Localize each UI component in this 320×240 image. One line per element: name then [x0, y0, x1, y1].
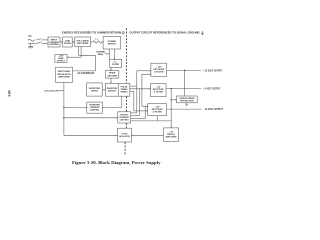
box overvoltage protection	[176, 96, 197, 103]
svg-text:ENERGY RECOVERED TO SUMMER RET: ENERGY RECOVERED TO SUMMER RETURN	[62, 31, 121, 35]
box inverter drive	[87, 83, 103, 96]
svg-text:FILTER: FILTER	[64, 43, 72, 45]
isolation boundary dashed line	[125, 28, 126, 155]
svg-text:SWITCH: SWITCH	[108, 91, 117, 93]
wire inductor to power switch	[101, 41, 104, 43]
AC input wire lower	[28, 42, 37, 44]
wire inverter switch to -12V rectifier	[130, 90, 134, 92]
wire +5V sense to overvoltage protection	[171, 99, 176, 101]
wire full wave rectifier bottom loop	[78, 47, 80, 56]
page number	[8, 90, 12, 97]
top note: energy recovered text	[62, 31, 121, 35]
svg-text:+ 5 VOLT OUTPUT: + 5 VOLT OUTPUT	[203, 88, 221, 91]
AC input wire upper with source squiggle	[28, 39, 35, 41]
svg-text:DRIVE: DRIVE	[91, 91, 98, 93]
svg-text:PROTECTION: PROTECTION	[180, 100, 194, 102]
box inverter current limiting	[87, 102, 103, 113]
node A circled symbol	[122, 32, 124, 34]
wire rectifier to inductor	[91, 41, 93, 43]
label AC feedback	[77, 72, 94, 75]
caption figure title	[72, 161, 161, 165]
svg-text:AC FEEDBACK: AC FEEDBACK	[77, 72, 94, 75]
top note: output circuit referenced text	[130, 31, 200, 35]
svg-text:ISOLATOR: ISOLATOR	[119, 135, 130, 138]
svg-text:AMPLIFIER: AMPLIFIER	[165, 136, 177, 139]
svg-text:& FILTER: & FILTER	[153, 112, 163, 114]
wire inverter switch to +12V rectifier	[130, 85, 137, 87]
svg-text:+12V (ON-OFF): +12V (ON-OFF)	[44, 91, 60, 93]
svg-text:TRANS: TRANS	[120, 88, 128, 91]
svg-text:BIAS: BIAS	[98, 53, 104, 56]
wire rectifier to bias supply	[80, 47, 82, 58]
svg-text:L.C.: L.C.	[114, 62, 118, 64]
svg-text:Figure 3-20. Block Diagram, P: Figure 3-20. Block Diagram, Power Supply	[72, 161, 161, 165]
box +5V error amplifier	[163, 128, 178, 141]
box input current limiting	[48, 37, 60, 47]
box LC filter	[109, 59, 121, 67]
wire bus to inverter current limiting	[64, 106, 87, 108]
svg-text:LIMITING: LIMITING	[90, 110, 99, 112]
svg-text:FILTER: FILTER	[112, 64, 120, 66]
box output current limiting	[118, 112, 131, 123]
box inverter switch and pulse timing	[106, 83, 130, 96]
svg-text:LIMITING: LIMITING	[120, 119, 129, 121]
svg-text:RECTIFIER: RECTIFIER	[77, 43, 89, 45]
wire inverter drive to inverter switch	[102, 89, 105, 91]
signal ground glyph after top note	[201, 31, 204, 35]
wire lower sense bus	[131, 120, 172, 122]
box full wave rectifier	[75, 37, 91, 47]
wire LC filter to spike catcher	[110, 67, 112, 70]
svg-text:CATCHER: CATCHER	[107, 74, 118, 77]
feedback bus vertical	[63, 83, 65, 136]
box switching regulator amplifier	[56, 67, 73, 82]
switch S1 lower	[37, 42, 42, 43]
svg-text:AMPLIFIER: AMPLIFIER	[58, 75, 70, 78]
label normal bias	[96, 51, 106, 56]
svg-text:SUPPLY: SUPPLY	[57, 60, 66, 62]
wire inverter current limiting to inverter switch bottom	[102, 106, 121, 108]
wire bus to opto isolator	[64, 134, 117, 136]
inductor L1	[93, 41, 102, 43]
box power switch	[103, 37, 120, 50]
wire spike catcher to inverter switch	[110, 78, 112, 83]
label on-off	[44, 91, 60, 93]
AC source label	[28, 35, 32, 38]
box bias supply	[55, 54, 67, 62]
svg-text:+ 12 VOLT OUTPUT: + 12 VOLT OUTPUT	[203, 69, 223, 72]
wire to rectifier	[72, 41, 74, 43]
+12V output line	[167, 69, 201, 71]
-12V output line	[167, 108, 202, 110]
wire inverter switch to +5V rectifier	[130, 88, 151, 90]
chassis ground	[30, 43, 32, 46]
svg-text:& FILTER: & FILTER	[154, 71, 164, 73]
wire bus to output current limiting	[64, 117, 118, 119]
svg-text:- 12 VOLT OUTPUT: - 12 VOLT OUTPUT	[204, 108, 224, 111]
svg-text:3-84: 3-84	[8, 90, 12, 97]
svg-text:& FILTER: & FILTER	[154, 92, 164, 94]
box line filter	[63, 37, 72, 47]
+5V output line	[166, 88, 201, 90]
wire +12V junction to overvoltage protection	[184, 70, 186, 96]
box -12V rectifier and filter	[148, 104, 167, 116]
wire error amplifier to opto isolator	[132, 134, 164, 136]
wire to line filter	[60, 41, 62, 43]
switch S1 upper	[36, 39, 41, 40]
box +12V rectifier and filter	[151, 63, 167, 76]
svg-text:SWITCH: SWITCH	[108, 44, 117, 46]
svg-text:AC: AC	[28, 35, 32, 38]
svg-text:LIMITING: LIMITING	[49, 44, 59, 46]
secondary wiring verticals	[136, 71, 138, 113]
box opto isolator	[118, 128, 132, 142]
wires output current limiting right side	[131, 112, 137, 114]
+5V sense wire to error amplifier	[170, 89, 172, 128]
box spike catcher	[106, 71, 119, 79]
box +5V rectifier and filter	[151, 84, 166, 97]
signal ground below overvoltage protection	[185, 103, 188, 106]
svg-text:TIMING: TIMING	[120, 92, 128, 94]
svg-text:REGULATOR: REGULATOR	[57, 73, 71, 76]
wires power switch to LC filter	[109, 49, 111, 59]
svg-text:OUTPUT CIRCUIT REFERENCED TO S: OUTPUT CIRCUIT REFERENCED TO SIGNAL GROU…	[130, 31, 200, 35]
